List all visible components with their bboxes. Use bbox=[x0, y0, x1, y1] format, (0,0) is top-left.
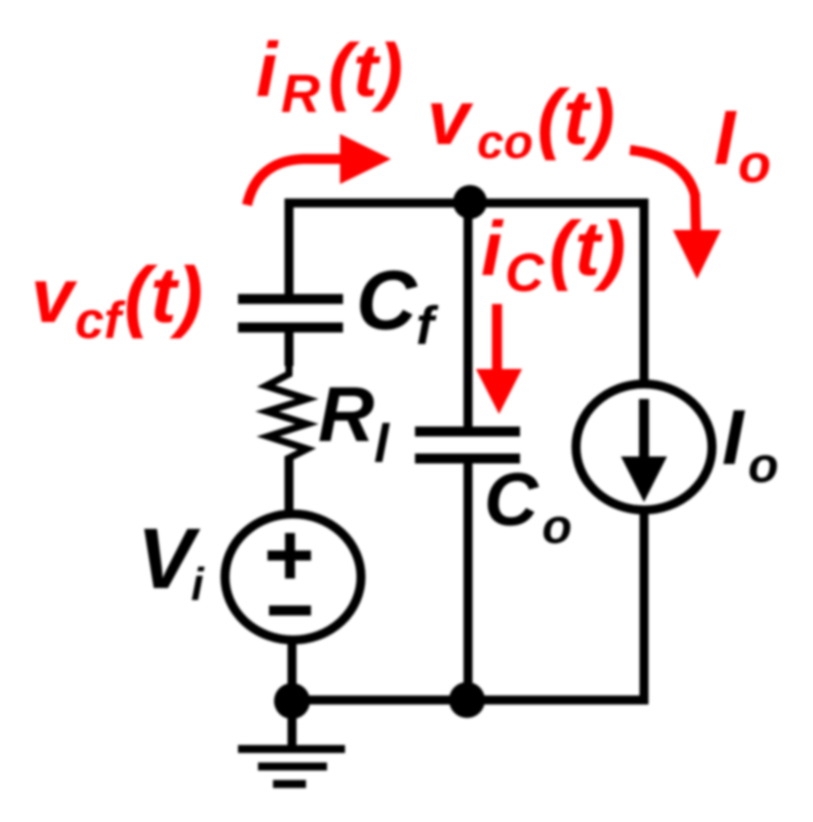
label vcf(t) red bbox=[31, 250, 203, 350]
svg-text:l: l bbox=[374, 414, 390, 474]
label vco(t) red bbox=[427, 73, 615, 169]
svg-text:C: C bbox=[484, 457, 540, 541]
node bottom-left junction bbox=[274, 683, 310, 719]
svg-text:o: o bbox=[738, 134, 771, 194]
svg-text:co: co bbox=[477, 116, 533, 169]
svg-text:I: I bbox=[714, 95, 737, 181]
label iC(t) red bbox=[481, 206, 626, 303]
capacitor Co bbox=[415, 432, 520, 459]
label Co bbox=[484, 457, 572, 554]
svg-text:R: R bbox=[281, 64, 320, 124]
wire middle vertical upper bbox=[464, 203, 473, 427]
ground bbox=[238, 701, 345, 784]
svg-text:cf: cf bbox=[75, 292, 126, 350]
svg-text:(t): (t) bbox=[124, 250, 203, 339]
label Vi bbox=[137, 511, 205, 610]
svg-text:f: f bbox=[416, 296, 439, 356]
svg-text:(t): (t) bbox=[328, 28, 403, 112]
svg-text:C: C bbox=[505, 243, 545, 303]
arrow iC straight bbox=[476, 304, 522, 414]
label Rl bbox=[318, 370, 390, 474]
wire resistor to source bbox=[285, 456, 294, 512]
label Io black bbox=[722, 393, 779, 493]
svg-text:o: o bbox=[748, 437, 779, 493]
svg-text:R: R bbox=[318, 370, 374, 458]
svg-text:i: i bbox=[191, 558, 205, 610]
wire bottom bbox=[292, 512, 644, 700]
svg-text:(t): (t) bbox=[549, 206, 626, 292]
wire middle vertical lower bbox=[464, 463, 473, 700]
svg-text:(t): (t) bbox=[537, 73, 615, 161]
svg-text:i: i bbox=[256, 27, 279, 113]
arrow Io curved bbox=[630, 150, 721, 279]
wire Cf to resistor bbox=[285, 332, 294, 366]
svg-text:i: i bbox=[481, 206, 504, 292]
node bottom-middle junction bbox=[449, 682, 485, 718]
current source Io bbox=[576, 384, 712, 510]
wire top bbox=[289, 203, 644, 382]
svg-text:v: v bbox=[31, 253, 78, 339]
svg-text:I: I bbox=[722, 393, 745, 481]
node top junction vco bbox=[453, 185, 487, 219]
label Io red bbox=[714, 95, 771, 194]
svg-text:o: o bbox=[542, 500, 572, 554]
label Cf bbox=[356, 253, 439, 356]
svg-text:v: v bbox=[427, 75, 474, 161]
wire source to bottom node bbox=[288, 643, 297, 701]
capacitor Cf bbox=[238, 299, 343, 328]
resistor Rl bbox=[266, 362, 307, 474]
label iR(t) red bbox=[256, 27, 403, 124]
svg-text:C: C bbox=[356, 253, 418, 347]
arrow iR curved bbox=[247, 134, 391, 205]
voltage source Vi bbox=[225, 514, 361, 640]
